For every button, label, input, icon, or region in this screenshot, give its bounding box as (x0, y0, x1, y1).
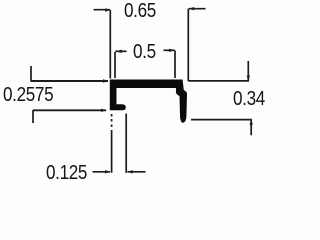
dim 0.5 left stub (115, 50, 126, 52)
dim 0.2575 bottom projection line (33, 109, 106, 111)
dim 0.125 left extension line (111, 114, 113, 173)
dim 0.65 left arrow (105, 8, 111, 11)
dim 0.5 right arrow (169, 49, 175, 52)
label 0.125 (46, 162, 87, 185)
dim 0.2575 bottom hook (32, 110, 34, 123)
dim 0.65 right extension line (187, 9, 189, 82)
dim 0.125 right arrow (127, 170, 133, 173)
dim 0.125 left stub (93, 171, 111, 173)
dim 0.5 right stub (164, 49, 175, 51)
label 0.34 (233, 88, 265, 111)
label 0.2575 (3, 84, 53, 107)
dim 0.34 bottom hook (250, 120, 252, 136)
dim 0.65 right stub (189, 8, 206, 10)
dim 0.34 top projection line (188, 80, 249, 82)
label 0.5 (133, 41, 156, 64)
dim 0.125 left arrow (105, 170, 111, 173)
dim 0.2575 top hook (30, 66, 32, 82)
profile cross-section (channel extrusion) (110, 80, 187, 123)
dim 0.34 top arrow (247, 76, 250, 81)
dim 0.65 left stub (94, 9, 111, 11)
dim 0.65 left extension line (109, 10, 111, 79)
dim 0.2575 bottom arrow (101, 109, 107, 112)
dim 0.5 right extension line (174, 51, 176, 79)
dim 0.34 bottom arrow (250, 119, 253, 124)
dim 0.125 right stub (128, 171, 146, 173)
dim 0.2575 top projection line (31, 80, 108, 82)
dim 0.2575 top arrow (103, 79, 109, 82)
dim 0.5 left extension line (114, 52, 116, 78)
label 0.65 (124, 0, 156, 23)
dim 0.5 left arrow (116, 50, 122, 53)
dim 0.34 bottom projection line (191, 119, 252, 121)
dim 0.65 right arrow (189, 7, 195, 10)
dim 0.34 top hook (247, 61, 249, 81)
dim 0.125 right extension line (125, 114, 127, 173)
